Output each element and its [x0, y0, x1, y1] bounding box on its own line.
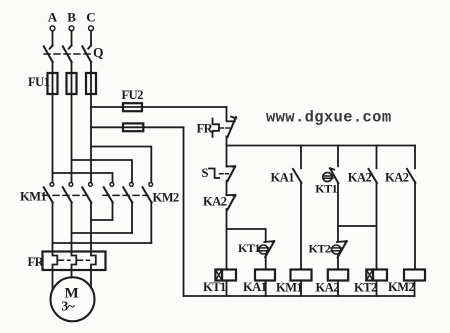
wire control line 2 from phase C — [91, 126, 184, 128]
thermal relay FR heater element 1 — [53, 252, 58, 271]
svg-text:KT1: KT1 — [315, 181, 337, 195]
fuse FU1 pole 1 — [48, 73, 58, 94]
wire FR to motor terminal 1 — [52, 270, 54, 290]
thermal relay FR release symbol — [213, 119, 220, 137]
wire branch phase B to KM2 contact 2 — [72, 160, 133, 183]
wire junction KM2c1 to phase W — [91, 219, 113, 221]
wire link branch2 to branch3 — [338, 225, 377, 227]
wire KM2 contact 2 down — [131, 203, 133, 233]
thermal relay FR NC contact — [227, 116, 237, 137]
wire KA2 coil to bottom rail — [337, 281, 339, 297]
wire phase C vertical to KM1 contact 3 — [90, 73, 92, 183]
switch Q pole 3 — [82, 45, 91, 62]
thermal relay FR heater link (dashed) — [59, 259, 71, 261]
coil KM2 — [404, 270, 425, 281]
coil KM1 — [291, 270, 312, 281]
contactor KM2 main contact 3 — [143, 183, 153, 203]
wire phase B vertical to KM1 contact 2 — [71, 73, 73, 183]
wire KT2 coil to bottom rail — [376, 281, 378, 297]
svg-text:3~: 3~ — [62, 299, 75, 314]
wire switch to FU1 phase A — [52, 62, 54, 73]
fuse FU1 pole 2 — [67, 73, 77, 94]
relay contact KA2 (branch 4, NO) — [407, 169, 415, 183]
contactor KM1 mechanical link (dashed) — [43, 194, 88, 196]
wire control top rail — [227, 145, 416, 147]
S actuator dashed link — [220, 173, 229, 175]
wire phase C drop to switch — [90, 31, 92, 46]
time relay KT1 delayed contact (top) — [323, 168, 339, 183]
wire phase A vertical to KM1 contact 1 — [52, 73, 54, 183]
wire KA1 coil to bottom rail — [265, 281, 267, 297]
coil KT2 (time relay) — [366, 270, 387, 281]
coil KT1 (time relay) — [215, 270, 236, 281]
wire branch phase A to KM2 contact 1 — [53, 173, 113, 183]
wire branch 4 from rail — [414, 146, 416, 169]
fuse FU2 lower — [123, 123, 143, 131]
svg-text:KT1: KT1 — [203, 280, 226, 294]
wire phase B drop to switch — [71, 31, 73, 46]
switch Q pole 2 — [63, 45, 72, 62]
coil KA2 — [328, 270, 348, 281]
wire branch 2 from rail — [337, 146, 339, 167]
contactor KM2 main contact 1 — [104, 183, 114, 203]
wire KA2 contact down to split — [226, 209, 228, 270]
contactor KM1 main contact 1 — [44, 183, 54, 203]
svg-text:FU2: FU2 — [122, 88, 144, 102]
wire KT1 top contact down — [337, 183, 339, 241]
wire S to KA2 contact — [226, 181, 228, 196]
switch S contact — [227, 165, 236, 181]
wire KM2 contact 1 down — [112, 203, 114, 220]
wire KM1 contact 3 down to FR heater 3 — [90, 203, 92, 252]
wire KM1 coil to bottom rail — [300, 281, 302, 297]
svg-text:A: A — [48, 10, 58, 25]
svg-text:B: B — [67, 10, 76, 25]
svg-text:KA1: KA1 — [243, 280, 267, 294]
svg-text:KA2: KA2 — [385, 170, 409, 184]
svg-text:KT2: KT2 — [354, 281, 377, 295]
wire KM2 coil to bottom rail — [414, 281, 416, 297]
svg-text:KA1: KA1 — [271, 170, 295, 184]
wire FR contact to rail junction — [226, 137, 228, 167]
wire KT1 contact to KA1 coil — [265, 256, 267, 270]
FR release dashed link — [220, 127, 230, 129]
wire KM1 contact 2 down to FR heater 2 — [71, 203, 73, 252]
wire bottom rail — [184, 295, 415, 297]
wire KT1 coil to bottom rail — [226, 281, 228, 297]
svg-text:KT2: KT2 — [309, 242, 331, 256]
svg-text:S: S — [202, 166, 209, 180]
wire control return vertical — [183, 127, 185, 296]
wire KA1 contact to KM1 coil — [300, 183, 302, 270]
wire junction KM2c3 to phase U — [53, 242, 152, 244]
thermal relay FR heater element 2 — [72, 252, 77, 271]
fuse FU1 pole 3 — [86, 73, 96, 94]
svg-text:FR: FR — [197, 122, 214, 136]
svg-text:KM2: KM2 — [153, 191, 180, 205]
contactor KM1 main contact 3 — [82, 183, 92, 203]
svg-text:KA2: KA2 — [203, 195, 227, 209]
time relay KT1 delayed contact (bottom) — [258, 240, 275, 257]
wire KA2 branch3 down to KT2 coil — [376, 183, 378, 270]
motor M 3~ — [51, 277, 95, 321]
relay contact KA1 (NO) — [293, 169, 301, 183]
svg-text:KM1: KM1 — [20, 190, 47, 204]
wire switch to FU1 phase C — [90, 62, 92, 73]
wire FR to motor terminal 2 — [71, 270, 73, 278]
wire switch to FU1 phase B — [71, 62, 73, 73]
wire split to KT1 delayed contact column — [227, 229, 266, 241]
wire control line 1 from phase C — [91, 106, 227, 108]
wire branch 1 from rail — [300, 146, 302, 169]
wire junction KM2c2 to phase V — [72, 232, 133, 234]
svg-text:KA2: KA2 — [316, 281, 340, 295]
switch Q mechanical link (dashed) — [44, 53, 93, 55]
wire branch 3 from rail — [376, 146, 378, 169]
svg-text:C: C — [86, 10, 95, 25]
contactor KM2 mechanical link (dashed) — [103, 194, 148, 196]
thermal relay FR heater element 3 — [91, 252, 96, 271]
wire KM1 contact 1 down to FR heater 1 — [52, 203, 54, 252]
svg-text:Q: Q — [93, 45, 103, 60]
svg-text:KM2: KM2 — [388, 280, 415, 294]
switch S actuator — [209, 169, 219, 179]
node A terminal — [48, 10, 58, 31]
wire KT2 contact to KA2 coil — [337, 256, 339, 270]
svg-text:KA2: KA2 — [348, 170, 372, 184]
switch Q pole 1 — [44, 45, 53, 62]
node B terminal — [67, 10, 76, 31]
wire KM2 contact 3 down — [150, 203, 152, 243]
wire FR to motor terminal 3 — [90, 270, 92, 288]
node C terminal — [86, 10, 95, 31]
relay contact KA2 (left rail, NO) — [227, 194, 237, 210]
contactor KM2 main contact 2 — [123, 183, 133, 203]
coil KA1 — [255, 270, 275, 281]
svg-text:KM1: KM1 — [276, 281, 303, 295]
wire control line 1 corner down to FR contact — [226, 107, 228, 120]
relay contact KA2 (branch 3, NO) — [369, 169, 377, 183]
thermal relay FR heater box — [43, 252, 106, 271]
svg-text:www.dgxue.com: www.dgxue.com — [266, 109, 391, 127]
svg-text:KT1: KT1 — [238, 241, 260, 255]
time relay KT2 delayed contact (bottom) — [331, 240, 348, 257]
contactor KM1 main contact 2 — [63, 183, 73, 203]
wire phase A drop to switch — [52, 31, 54, 46]
wire branch phase C to KM2 contact 3 — [91, 147, 151, 183]
wire KA2 branch4 down to KM2 coil — [414, 183, 416, 270]
fuse FU2 upper — [123, 103, 142, 111]
